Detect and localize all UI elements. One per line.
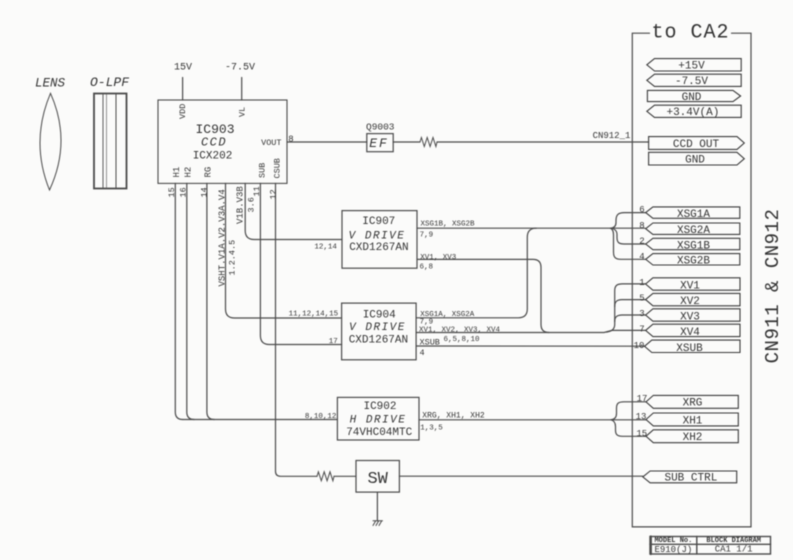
svg-text:XSG1B: XSG1B	[677, 240, 710, 252]
svg-text:XSG2A: XSG2A	[677, 225, 710, 237]
svg-text:VSHT.V1A.V2.V3A.V4: VSHT.V1A.V2.V3A.V4	[218, 189, 228, 286]
svg-text:CN912_1: CN912_1	[593, 131, 631, 141]
svg-text:8: 8	[639, 221, 644, 231]
svg-text:CN911 & CN912: CN911 & CN912	[762, 209, 784, 364]
svg-text:15: 15	[636, 429, 647, 439]
svg-text:IC904: IC904	[363, 310, 396, 322]
svg-text:8,10,12: 8,10,12	[305, 413, 337, 421]
svg-text:13: 13	[636, 412, 647, 422]
svg-text:XV2: XV2	[680, 296, 700, 308]
svg-text:14: 14	[200, 187, 210, 197]
svg-text:IC907: IC907	[362, 216, 395, 228]
svg-text:V DRIVE: V DRIVE	[349, 322, 406, 334]
svg-text:3: 3	[639, 309, 644, 319]
svg-text:XV1, XV3: XV1, XV3	[420, 254, 457, 262]
svg-text:CCD OUT: CCD OUT	[673, 139, 720, 151]
svg-text:17: 17	[637, 394, 648, 404]
svg-text:4: 4	[639, 252, 644, 262]
svg-text:CCD: CCD	[201, 136, 227, 150]
svg-text:6,8: 6,8	[420, 263, 434, 271]
svg-text:12,14: 12,14	[314, 244, 337, 252]
svg-text:V1B.V3B: V1B.V3B	[236, 186, 246, 224]
svg-text:11,12,14,15: 11,12,14,15	[289, 311, 339, 319]
svg-text:CXD1267AN: CXD1267AN	[349, 242, 408, 254]
svg-text:EF: EF	[369, 136, 389, 151]
svg-text:BLOCK DIAGRAM: BLOCK DIAGRAM	[706, 537, 761, 545]
svg-text:16: 16	[179, 187, 189, 197]
svg-text:SUB CTRL: SUB CTRL	[664, 473, 717, 485]
svg-text:VOUT: VOUT	[261, 138, 281, 148]
svg-text:XSG1A: XSG1A	[677, 209, 710, 221]
svg-text:XSUB: XSUB	[420, 338, 440, 348]
svg-text:GND: GND	[685, 154, 705, 166]
svg-text:12: 12	[269, 189, 279, 199]
svg-text:3.6: 3.6	[247, 197, 257, 212]
svg-text:11: 11	[252, 186, 262, 196]
svg-text:H1: H1	[172, 167, 182, 178]
svg-text:-7.5V: -7.5V	[675, 76, 708, 88]
svg-text:6,5,8,10: 6,5,8,10	[444, 336, 481, 344]
svg-text:+15V: +15V	[678, 61, 705, 73]
svg-text:6: 6	[639, 205, 644, 215]
svg-text:H2: H2	[184, 167, 194, 178]
svg-text:XV3: XV3	[680, 312, 700, 324]
svg-text:1: 1	[639, 278, 644, 288]
svg-text:5: 5	[639, 294, 644, 304]
svg-text:8: 8	[288, 134, 293, 144]
svg-text:XV1, XV2, XV3, XV4: XV1, XV2, XV3, XV4	[419, 327, 501, 335]
svg-text:SUB: SUB	[258, 163, 268, 178]
svg-text:10: 10	[634, 341, 645, 351]
svg-text:SW: SW	[367, 470, 388, 489]
svg-text:to CA2: to CA2	[651, 22, 729, 45]
svg-text:17: 17	[329, 338, 338, 346]
svg-text:74VHC04MTC: 74VHC04MTC	[346, 427, 412, 439]
svg-text:IC902: IC902	[363, 401, 396, 413]
svg-text:VDD: VDD	[178, 104, 188, 119]
svg-text:7,9: 7,9	[420, 318, 434, 326]
svg-text:XSUB: XSUB	[676, 343, 703, 355]
svg-text:VL: VL	[238, 107, 248, 117]
svg-text:V DRIVE: V DRIVE	[349, 230, 406, 242]
svg-text:ICX202: ICX202	[193, 151, 233, 163]
svg-text:15V: 15V	[174, 62, 192, 73]
svg-text:RG: RG	[204, 167, 214, 178]
svg-text:XSG2B: XSG2B	[677, 256, 710, 268]
svg-text:O-LPF: O-LPF	[90, 75, 129, 90]
svg-text:CXD1267AN: CXD1267AN	[349, 334, 408, 346]
svg-text:+3.4V(A): +3.4V(A)	[666, 107, 719, 119]
svg-text:1,3,5: 1,3,5	[420, 425, 443, 433]
svg-text:15: 15	[167, 187, 177, 197]
svg-text:-7.5V: -7.5V	[225, 62, 255, 73]
svg-text:CA1 1/1: CA1 1/1	[715, 545, 753, 555]
svg-text:1.2.4.5: 1.2.4.5	[228, 240, 238, 276]
svg-text:Q9003: Q9003	[366, 122, 395, 133]
svg-text:XH1: XH1	[683, 415, 703, 427]
svg-text:GND: GND	[682, 92, 702, 104]
svg-text:2: 2	[639, 237, 644, 247]
svg-text:E910(J): E910(J)	[654, 545, 692, 555]
svg-text:LENS: LENS	[35, 77, 66, 91]
svg-text:XV4: XV4	[680, 327, 700, 339]
svg-text:CSUB: CSUB	[273, 158, 283, 178]
svg-text:H DRIVE: H DRIVE	[350, 414, 407, 426]
svg-text:4: 4	[420, 348, 425, 358]
svg-text:7,9: 7,9	[420, 232, 434, 240]
svg-text:XH2: XH2	[683, 432, 703, 444]
svg-text:XRG: XRG	[683, 398, 703, 410]
svg-text:XV1: XV1	[680, 281, 700, 293]
svg-text:7: 7	[639, 324, 644, 334]
svg-text:XRG, XH1, XH2: XRG, XH1, XH2	[422, 412, 485, 421]
svg-text:XSG1B, XSG2B: XSG1B, XSG2B	[421, 220, 476, 228]
